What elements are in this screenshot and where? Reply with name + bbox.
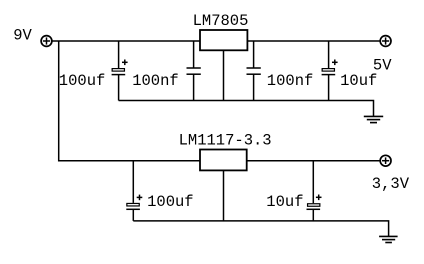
wire output rail (U2.OUT to 3,3V)	[247, 160, 380, 162]
ground GND2	[379, 236, 398, 242]
capacitor C5 100uf (LM1117 input electrolytic)	[126, 161, 142, 221]
capacitor C4 10uf (output electrolytic)	[322, 41, 338, 101]
terminal J1 9V input	[41, 36, 52, 47]
svg-text:100nf: 100nf	[132, 72, 179, 90]
wire ground rail (top circuit)	[119, 101, 374, 117]
pin U2 GND	[223, 170, 225, 221]
svg-text:100uf: 100uf	[147, 193, 194, 211]
terminal J2 5V output	[380, 36, 391, 47]
svg-text:3,3V: 3,3V	[372, 175, 410, 193]
wire top rail left (9V to U1.IN)	[52, 40, 200, 42]
pin U1 GND	[223, 50, 225, 100]
svg-text:LM1117-3.3: LM1117-3.3	[179, 132, 272, 150]
svg-text:5V: 5V	[373, 57, 392, 75]
svg-text:9V: 9V	[13, 26, 32, 44]
capacitor C3 100nf (output ceramic)	[247, 41, 261, 101]
capacitor C2 100nf (input ceramic)	[187, 41, 201, 101]
svg-text:100uf: 100uf	[59, 72, 106, 90]
capacitor C1 100uf (input electrolytic)	[112, 41, 128, 101]
svg-text:100nf: 100nf	[267, 72, 314, 90]
svg-text:10uf: 10uf	[340, 72, 377, 90]
wire 9V feed drop to LM1117 input	[59, 41, 200, 161]
wire top rail right (U1.OUT to 5V)	[247, 40, 380, 42]
svg-text:LM7805: LM7805	[193, 12, 249, 30]
capacitor C6 10uf (LM1117 output electrolytic)	[307, 161, 322, 221]
svg-text:10uf: 10uf	[266, 193, 303, 211]
terminal J3 3,3V output	[380, 155, 391, 166]
regulator U1 LM7805	[200, 30, 247, 50]
ground GND1	[364, 116, 383, 122]
regulator U2 LM1117-3.3	[200, 150, 247, 171]
wire ground rail (bottom circuit)	[133, 221, 388, 237]
